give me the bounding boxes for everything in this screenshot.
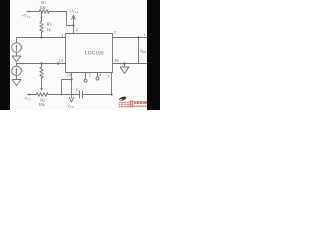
svg-text:10k: 10k — [38, 102, 45, 107]
svg-text:+VCC: +VCC — [22, 13, 31, 19]
svg-text:-VCC: -VCC — [23, 96, 31, 102]
svg-text:I2: I2 — [20, 67, 24, 73]
svg-text:R3: R3 — [47, 21, 52, 26]
svg-text:5: 5 — [89, 72, 91, 77]
svg-text:10k: 10k — [39, 5, 46, 10]
svg-text:1: 1 — [61, 33, 63, 38]
svg-text:2: 2 — [76, 27, 78, 32]
svg-text:I1: I1 — [20, 44, 24, 50]
svg-text:-VCC: -VCC — [66, 103, 74, 109]
svg-text:18: 18 — [114, 58, 118, 63]
svg-text:+VCC: +VCC — [69, 8, 78, 14]
svg-text:C1: C1 — [76, 87, 81, 93]
svg-text:10: 10 — [67, 72, 71, 77]
svg-text:3: 3 — [107, 73, 109, 78]
svg-text:LOG100: LOG100 — [85, 50, 104, 56]
svg-text:RKF: RKF — [140, 48, 147, 54]
